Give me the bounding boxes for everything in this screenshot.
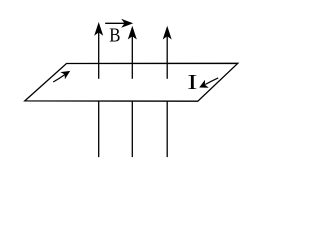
svg-text:I: I [187, 70, 197, 93]
vector overbar arrow above B [105, 22, 126, 24]
field line 3 upper shaft [166, 34, 168, 79]
field line 2 arrowhead [128, 26, 137, 40]
field line 3 arrowhead [163, 26, 172, 40]
field line 3 lower segment [166, 102, 168, 158]
current arrow on left edge [53, 75, 65, 82]
conducting loop (parallelogram plane) [25, 63, 238, 101]
field line 1 upper shaft [98, 30, 100, 79]
current arrow near right edge (I direction) [205, 78, 218, 85]
field line 2 lower segment [131, 102, 133, 158]
svg-text:B: B [109, 24, 120, 46]
field line 1 arrowhead [94, 22, 103, 36]
field line 2 upper shaft [131, 34, 133, 79]
field line 1 lower segment [98, 102, 100, 158]
